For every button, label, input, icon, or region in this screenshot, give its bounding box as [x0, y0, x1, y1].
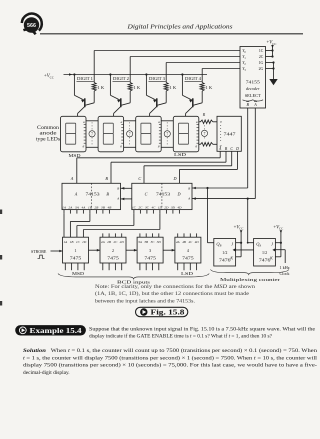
svg-text:MSD: MSD: [69, 153, 82, 158]
svg-text:+VCC: +VCC: [44, 74, 54, 79]
svg-text:1C: 1C: [259, 49, 264, 53]
svg-text:a: a: [83, 120, 85, 124]
node DIGIT 2 label: [113, 77, 130, 81]
svg-text:2G: 2G: [259, 67, 264, 71]
wire decoder select B vertical: [247, 108, 249, 188]
brace BCD inputs: [58, 274, 209, 285]
wire BCD input pins latch 1: [65, 263, 84, 270]
svg-text:A: A: [70, 176, 74, 181]
svg-text:1 K: 1 K: [133, 85, 140, 90]
svg-text:g: g: [120, 144, 122, 148]
svg-text:2D: 2D: [164, 205, 169, 209]
svg-text:D: D: [172, 176, 176, 181]
node B wire 74153 output to 7447 input B: [105, 151, 226, 183]
latch U8 7475 #4: [175, 237, 201, 263]
header rule: [40, 33, 303, 35]
svg-text:DIGIT 1: DIGIT 1: [77, 77, 93, 81]
svg-text:A: A: [187, 197, 190, 201]
svg-text:g: g: [83, 144, 85, 148]
svg-text:7: 7: [129, 133, 131, 137]
transistor Q4 PNP digit driver: [181, 73, 202, 116]
svg-text:K: K: [229, 255, 233, 260]
svg-text:C: C: [145, 192, 148, 197]
resistor R (bottom segment resistor g): [199, 143, 217, 147]
resistor R1 1 K base resistor: [92, 83, 104, 92]
+Vcc pull-up for 1C 2C strobe pins: [266, 41, 277, 58]
7-segment display DS4 common anode: [173, 116, 199, 152]
7-segment display DS2 common anode: [98, 116, 124, 152]
svg-text:2D: 2D: [120, 240, 125, 244]
svg-text:1B: 1B: [88, 205, 92, 209]
node C wire 74153 output to 7447 input C: [138, 151, 231, 183]
wire QB output to select B: [208, 188, 214, 243]
svg-text:1 K: 1 K: [97, 85, 104, 90]
svg-text:1 kHz: 1 kHz: [280, 265, 290, 270]
svg-text:3D: 3D: [157, 240, 162, 244]
svg-text:4B: 4B: [108, 205, 112, 209]
svg-text:4D: 4D: [195, 240, 200, 244]
svg-text:type LEDs: type LEDs: [36, 137, 60, 142]
resistor R (top segment resistor a): [199, 112, 217, 124]
multiplexer U3 74153 (A,B sections): [62, 183, 121, 209]
svg-text:2B: 2B: [107, 240, 111, 244]
latch U5 7475 #1: [63, 237, 89, 263]
svg-text:a: a: [121, 120, 123, 124]
svg-text:STROBE: STROBE: [31, 249, 47, 254]
node DIGIT 3 label: [149, 77, 166, 81]
resistor R4 1 K base resistor: [200, 83, 212, 92]
svg-text:Common: Common: [37, 126, 60, 131]
transistor Q1 PNP digit driver: [73, 73, 94, 116]
svg-text:B: B: [117, 187, 119, 191]
+Vcc supply label (rail): [44, 73, 72, 79]
STROBE input: [31, 249, 63, 258]
wire DIGIT 4 select line from 74155 decoder: [202, 69, 240, 83]
svg-text:7475: 7475: [182, 256, 194, 261]
wire select B line to multiplexers: [121, 187, 248, 190]
wire DIGIT 1 select line from 74155 decoder: [94, 51, 240, 83]
ground symbol for 1G 2G enable pins: [266, 61, 278, 85]
node DIGIT 4 label: [185, 77, 202, 81]
resistor R3 1 K base resistor: [164, 83, 176, 92]
flip-flop FF2 1/2 7476 QA: [254, 239, 276, 267]
svg-text:2: 2: [112, 248, 114, 253]
svg-text:7: 7: [91, 133, 93, 137]
svg-text:D: D: [176, 192, 180, 197]
svg-text:7476: 7476: [259, 258, 271, 263]
svg-text:B: B: [106, 192, 109, 197]
+Vcc tie J K of FF1: [234, 225, 244, 256]
svg-text:anode: anode: [40, 132, 57, 137]
svg-text:7447: 7447: [224, 132, 237, 137]
svg-text:a: a: [220, 120, 222, 124]
svg-text:Multiplexing counter: Multiplexing counter: [220, 277, 281, 282]
svg-text:D: D: [235, 147, 239, 151]
svg-text:7475: 7475: [70, 256, 82, 261]
svg-text:Digital Principles and Applica: Digital Principles and Applications: [126, 24, 233, 31]
wire DIGIT 3 select line from 74155 decoder: [166, 63, 240, 83]
svg-text:K: K: [269, 255, 273, 260]
svg-text:g: g: [158, 144, 160, 148]
transistor Q3 PNP digit driver: [145, 73, 166, 116]
svg-text:2B: 2B: [95, 205, 99, 209]
svg-text:74153: 74153: [156, 192, 170, 197]
svg-text:74155: 74155: [246, 80, 260, 85]
svg-text:Suppose that the unknown input: Suppose that the unknown input signal in…: [89, 327, 316, 333]
svg-text:3B: 3B: [144, 240, 148, 244]
svg-text:1 K: 1 K: [205, 85, 212, 90]
svg-text:R: R: [202, 112, 206, 117]
svg-text:+VCC: +VCC: [234, 225, 244, 230]
wire +Vcc rail: [64, 74, 208, 76]
svg-text:B: B: [105, 176, 108, 181]
svg-text:1: 1: [75, 248, 77, 253]
svg-text:Note: For clarity, only the co: Note: For clarity, only the connections …: [95, 285, 256, 290]
svg-text:3D: 3D: [171, 205, 176, 209]
example 15.4 badge: [16, 326, 86, 336]
resistor R2 1 K base resistor: [128, 83, 140, 92]
svg-text:4B: 4B: [182, 240, 186, 244]
svg-text:4: 4: [187, 248, 189, 253]
svg-text:7475: 7475: [144, 256, 156, 261]
svg-text:LSD: LSD: [174, 152, 187, 157]
svg-text:A: A: [74, 192, 78, 197]
svg-text:+VCC: +VCC: [273, 225, 283, 230]
svg-text:7: 7: [204, 132, 206, 136]
svg-text:a: a: [196, 120, 198, 124]
svg-text:1G: 1G: [259, 61, 264, 65]
latch U6 7475 #2: [100, 237, 126, 263]
svg-text:MSD: MSD: [72, 271, 85, 276]
svg-text:DIGIT 4: DIGIT 4: [185, 77, 201, 81]
svg-text:7476: 7476: [219, 258, 231, 263]
wire 7-line ribbon into 7447: [201, 126, 207, 141]
svg-text:1/2: 1/2: [262, 250, 267, 255]
transistor Q2 PNP digit driver: [109, 73, 130, 116]
svg-text:g: g: [195, 144, 197, 148]
wire 7-line segment bus ribbon between DS1 and DS2: [86, 121, 98, 148]
svg-text:SolutionWhen t = 0.1 s, the co: SolutionWhen t = 0.1 s, the counter will…: [23, 347, 317, 354]
svg-text:1/2: 1/2: [222, 250, 227, 255]
svg-text:3: 3: [149, 248, 151, 253]
wire BCD input pins latch 4: [178, 233, 197, 270]
multiplexer U4 74153 (C,D sections): [132, 183, 192, 209]
svg-text:1D: 1D: [158, 205, 163, 209]
svg-text:(1A, 1B, 1C, 1D), but the othe: (1A, 1B, 1C, 1D), but the other 12 conne…: [95, 292, 249, 297]
scan mark left edge 1: [0, 210, 2, 215]
latch U7 7475 #3: [137, 237, 163, 263]
node A wire 74153 output to 7447 input A: [70, 151, 220, 183]
brace multiplexing counter: [211, 270, 289, 283]
wire decoder select A vertical: [254, 108, 256, 199]
svg-text:decimal-digit display.: decimal-digit display.: [23, 370, 70, 376]
wire BCD input pins latch 2: [103, 233, 122, 270]
svg-text:display indicate if the GATE E: display indicate if the GATE ENABLE time…: [89, 332, 273, 339]
decoder/driver U2 7447: [217, 116, 241, 151]
wire 1 kHz clock input: [275, 250, 290, 276]
svg-text:SELECT: SELECT: [245, 93, 261, 98]
svg-text:1B: 1B: [70, 240, 74, 244]
flip-flop FF1 1/2 7476 QB: [214, 239, 236, 267]
svg-text:2C: 2C: [259, 55, 264, 59]
svg-text:74153: 74153: [86, 192, 100, 197]
wire DIGIT 2 select line from 74155 decoder: [130, 57, 240, 83]
svg-text:Example 15.4: Example 15.4: [30, 327, 83, 335]
wire 7-line segment bus ribbon between DS3 and DS4: [161, 121, 173, 148]
decoder U1 74155: [240, 47, 266, 109]
svg-text:between the input latches and: between the input latches and the 74153s…: [95, 299, 195, 304]
scan mark left edge 2: [0, 255, 2, 260]
svg-text:C: C: [138, 176, 141, 181]
node DIGIT 1 label: [77, 77, 94, 81]
+Vcc tie J K of FF2: [273, 225, 283, 256]
node D wire 74153 output to 7447 input D: [172, 151, 237, 183]
wire strobe daisy chain arrows: [89, 249, 175, 252]
figure label badge Fig. 15.8: [136, 307, 188, 316]
svg-text:Fig. 15.8: Fig. 15.8: [151, 309, 186, 317]
svg-text:1 K: 1 K: [169, 85, 176, 90]
svg-text:C: C: [230, 147, 233, 151]
svg-text:B: B: [188, 187, 190, 191]
svg-text:1D: 1D: [82, 240, 87, 244]
svg-text:7: 7: [166, 133, 168, 137]
svg-text:a: a: [158, 120, 160, 124]
wire MSD latch to 74153 connections 1A 1B 1C 1D: [64, 214, 160, 238]
wire QA output to select A: [247, 199, 254, 244]
wire BCD input pins latch 3: [140, 233, 159, 270]
example statement text: [89, 327, 316, 340]
svg-text:A: A: [253, 102, 257, 107]
svg-text:LSD: LSD: [181, 271, 194, 276]
svg-text:decoder: decoder: [246, 86, 260, 91]
wire select A line to multiplexers: [121, 197, 256, 200]
svg-text:DIGIT 3: DIGIT 3: [149, 77, 165, 81]
scan mark left edge 3: [0, 301, 2, 306]
wire 7-line segment bus ribbon between DS2 and DS3: [124, 121, 136, 148]
page number badge 566: [22, 14, 42, 35]
note text: [95, 285, 256, 305]
solution text: [23, 347, 318, 376]
wire 74153 data input pin stubs: [64, 210, 179, 214]
7-segment display DS1 common anode: [61, 116, 87, 152]
wire FF1 clock from FF2: [236, 249, 254, 251]
7-segment display DS3 common anode: [136, 116, 162, 152]
svg-text:DIGIT 2: DIGIT 2: [113, 77, 129, 81]
svg-text:display 7500 (transitions per: display 7500 (transitions per second) × …: [23, 361, 317, 368]
svg-text:566: 566: [27, 23, 36, 29]
label Common anode type LEDs: [36, 126, 60, 143]
svg-text:t = 1 s, the counter will disp: t = 1 s, the counter will display 7500 (…: [23, 354, 318, 361]
svg-text:7475: 7475: [107, 256, 119, 261]
svg-text:3B: 3B: [101, 205, 105, 209]
svg-text:A: A: [116, 197, 119, 201]
svg-text:4D: 4D: [177, 205, 182, 209]
